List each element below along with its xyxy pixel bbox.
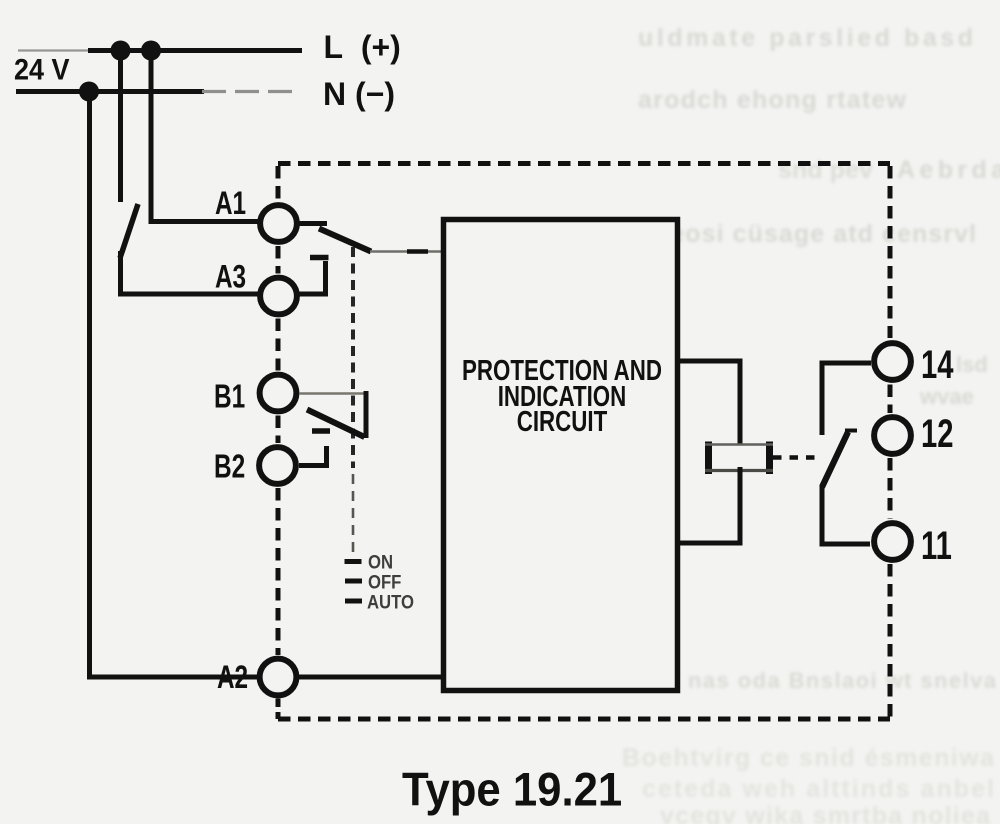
node junction dot on L at x=120 (111, 41, 131, 61)
wire blade to circuit dark dash (407, 249, 428, 254)
svg-text:CIRCUIT: CIRCUIT (517, 406, 608, 437)
svg-text:11: 11 (921, 524, 952, 569)
faint print bleed-through from reverse page (decorative scan artifact) (622, 24, 1000, 824)
wire L rail faint lead-in (18, 49, 92, 51)
protection circuit box U1 (444, 220, 678, 691)
contact tick B2 side (312, 428, 330, 434)
svg-text:A3: A3 (215, 259, 246, 295)
terminal 14 (874, 343, 911, 380)
svg-text:nas oda Bnslaoi wt snelva: nas oda Bnslaoi wt snelva (688, 668, 997, 693)
fixed contact for 14 (822, 363, 871, 435)
svg-text:lsd: lsd (956, 352, 988, 377)
svg-text:uldmate parslied basd: uldmate parslied basd (638, 24, 973, 52)
svg-text:Aebrda: Aebrda (897, 156, 1000, 184)
relay coil K1 bottom edge (705, 469, 773, 472)
wire A1 to internal switch (300, 221, 328, 226)
node junction dot on L at x=151 (141, 41, 161, 61)
wire B2 to contact (299, 446, 327, 466)
terminal B2 (259, 447, 296, 484)
svg-text:AUTO: AUTO (367, 592, 414, 613)
wire N rail faint tail (202, 90, 297, 93)
wire B-switch bracket (364, 391, 369, 438)
wire box to coil top (677, 361, 740, 448)
wire L to switch vertical (118, 51, 123, 203)
relay coil K1 top edge (705, 443, 773, 446)
svg-text:B2: B2 (214, 449, 245, 485)
contact blade tip tick (845, 429, 857, 433)
wire L to A1 (151, 51, 258, 222)
switch blade B1-B2 (307, 410, 365, 438)
wire N to A2 left vertical (90, 92, 260, 678)
selector tick ON (345, 559, 362, 564)
wire A3 to switch contact (300, 261, 326, 294)
svg-text:arodch ehong rtatew: arodch ehong rtatew (638, 86, 907, 114)
dashed enclosure right border segments (888, 166, 893, 719)
wire blade to A3 (121, 251, 259, 294)
relay coil K1 right edge (766, 442, 773, 475)
svg-text:snd pev: snd pev (778, 156, 873, 184)
relay coil K1 body (709, 445, 770, 471)
svg-text:A1: A1 (215, 186, 246, 222)
svg-text:vcegv wika smrtba noliea: vcegv wika smrtba noliea (660, 802, 991, 824)
terminal A1 (260, 205, 297, 242)
svg-text:14: 14 (921, 343, 954, 388)
svg-text:ON: ON (368, 552, 393, 573)
terminal B1 (260, 375, 297, 412)
relay coil K1 left edge (705, 442, 712, 475)
terminal 12 (874, 417, 911, 454)
wire A2 to circuit box (297, 675, 446, 680)
svg-text:12: 12 (921, 412, 953, 457)
selector tick AUTO (345, 599, 362, 604)
svg-text:B1: B1 (214, 379, 245, 415)
svg-text:OFF: OFF (368, 572, 401, 593)
wire N rail (16, 89, 204, 94)
node junction dot on N (79, 82, 99, 102)
wire B1 thin (299, 392, 366, 394)
dashed enclosure left border segments (276, 166, 281, 655)
terminal A3 (260, 278, 297, 315)
svg-text:Type 19.21: Type 19.21 (402, 763, 622, 816)
dashed enclosure top border (278, 161, 890, 166)
contact blade 11-12 (822, 432, 848, 487)
contact tick A3 side (310, 255, 329, 261)
terminal 11 (874, 523, 911, 560)
svg-text:A2: A2 (217, 660, 248, 696)
wire L rail (88, 48, 302, 53)
switch blade A1-A3 manual (120, 204, 138, 258)
terminal A2 (260, 659, 297, 696)
svg-text:L (+): L (+) (324, 29, 401, 65)
internal switch blade from A1 (319, 229, 371, 252)
wire blade to circuit thin (370, 250, 444, 253)
svg-text:wvae: wvae (919, 384, 974, 409)
dashed enclosure left border stub below A2 (276, 699, 281, 720)
svg-text:Boehtvirg ce snid ésmeniwa: Boehtvirg ce snid ésmeniwa (622, 744, 995, 772)
mechanical link dashed selector line lower part (352, 474, 355, 558)
wire coil bottom to box (677, 467, 740, 543)
svg-text:N (−): N (−) (323, 76, 395, 112)
mechanical link coil to contact dashes (773, 455, 821, 460)
wire blade to 11 (822, 486, 870, 544)
mechanical link dashed selector line (351, 247, 355, 468)
svg-text:24 V: 24 V (14, 53, 70, 87)
selector tick OFF (345, 579, 362, 584)
dashed enclosure bottom border (278, 717, 890, 722)
svg-text:ceteda weh alttinds anbel: ceteda weh alttinds anbel (642, 775, 994, 803)
